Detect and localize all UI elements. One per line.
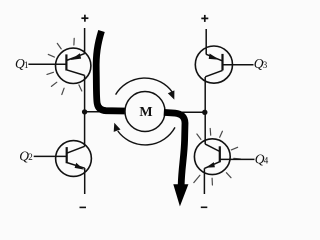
wire: left + rail to Q1 emitter bbox=[84, 28, 86, 54]
rotation arrow, top arc (clockwise) bbox=[116, 78, 175, 100]
wire: Q1 base lead bbox=[28, 63, 66, 65]
glow rays around Q4 bbox=[194, 129, 241, 186]
transistor Q3 (PNP, right high side, off) bbox=[195, 46, 232, 83]
current flow path (thick) from + through Q1, motor, Q4 to - bbox=[96, 31, 185, 185]
motor M bbox=[125, 92, 165, 132]
positive supply terminal (left) bbox=[81, 15, 88, 22]
wire: Q3 collector down through node B to Q4 collector bbox=[204, 77, 206, 144]
current flow arrowhead bbox=[173, 184, 188, 206]
transistor Q1 (PNP, left high side, conducting) bbox=[55, 48, 90, 83]
transistor Q2 (NPN, left low side, off) bbox=[56, 141, 92, 177]
svg-text:4: 4 bbox=[264, 155, 269, 165]
wire: Q1 collector down through node A to Q2 collector bbox=[84, 75, 86, 146]
wire: Q2 base lead bbox=[34, 155, 67, 157]
transistor Q4 (NPN, right low side, conducting) bbox=[194, 139, 230, 175]
glow rays around Q1 bbox=[47, 38, 82, 94]
negative supply terminal (left) bbox=[80, 206, 87, 208]
negative supply terminal (right) bbox=[201, 206, 208, 208]
svg-text:3: 3 bbox=[263, 60, 268, 70]
wire: right + rail to Q3 emitter bbox=[205, 29, 207, 55]
wire: Q4 base lead bbox=[220, 158, 255, 160]
wire: Q2 emitter to negative terminal bbox=[84, 168, 86, 194]
wire: Q3 base lead bbox=[223, 64, 254, 66]
svg-text:M: M bbox=[139, 105, 152, 120]
node A (left motor terminal junction) bbox=[82, 109, 87, 114]
wire: node A to motor left terminal bbox=[85, 111, 126, 113]
svg-text:1: 1 bbox=[24, 60, 29, 70]
positive supply terminal (right) bbox=[201, 15, 208, 22]
wire: Q4 emitter to negative terminal bbox=[203, 168, 205, 194]
wire: motor right terminal to node B bbox=[165, 111, 205, 113]
svg-text:2: 2 bbox=[28, 152, 33, 162]
rotation arrow, bottom arc (clockwise) bbox=[114, 123, 175, 145]
node B (right motor terminal junction) bbox=[202, 110, 207, 115]
